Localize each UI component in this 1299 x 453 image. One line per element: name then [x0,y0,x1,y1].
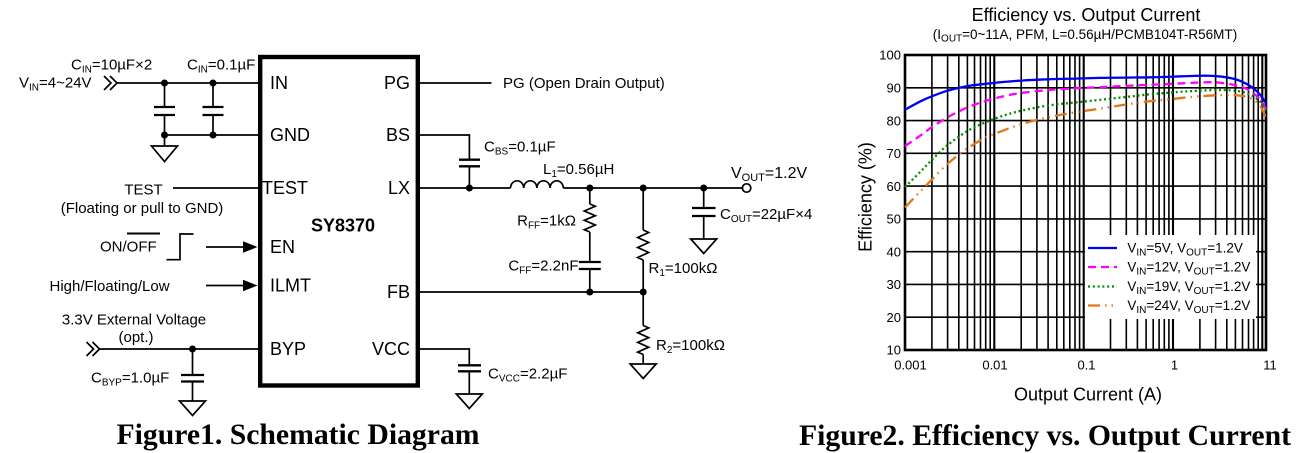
svg-text:VIN=4~24V: VIN=4~24V [19,75,92,94]
wire TEST [173,187,258,189]
wire FB [420,291,643,293]
svg-text:0.1: 0.1 [1077,358,1095,373]
y axis tick labels [879,48,901,358]
svg-text:FB: FB [387,282,410,302]
svg-text:VOUT=1.2V: VOUT=1.2V [731,165,807,184]
svg-text:(Floating or pull to GND): (Floating or pull to GND) [61,200,224,217]
svg-text:Efficiency vs. Output Current: Efficiency vs. Output Current [972,5,1201,25]
svg-text:0.001: 0.001 [894,358,927,373]
junction dots FB rail [586,289,646,296]
svg-text:40: 40 [887,244,901,259]
wire BYP [100,348,259,350]
svg-text:VCC: VCC [372,339,410,359]
resistor R2 [638,292,649,364]
resistor RFF [584,188,595,262]
svg-text:CIN=10µF×2: CIN=10µF×2 [71,57,152,76]
step waveform symbol [167,234,194,260]
legend sample line VIN=12V [1088,266,1117,268]
capacitor CFF [579,262,601,292]
svg-text:High/Floating/Low: High/Floating/Low [50,278,170,295]
svg-text:90: 90 [887,81,901,96]
junction dot BYP [189,346,196,353]
svg-text:CIN=0.1µF: CIN=0.1µF [187,57,255,76]
svg-text:60: 60 [887,179,901,194]
ground COUT [691,239,717,254]
EN arrowhead [243,241,258,253]
junction dots LX rail [466,185,707,192]
wire VCC [420,349,469,365]
svg-text:ON/OFF: ON/OFF [100,239,157,256]
capacitor CBYP [181,349,204,401]
capacitor CIN1 [154,83,175,135]
curve VIN=24V [905,95,1266,207]
svg-text:SY8370: SY8370 [311,216,375,236]
capacitor CIN2 [203,83,224,135]
resistor R1 [638,188,649,292]
svg-text:LX: LX [388,178,410,198]
svg-text:L1=0.56µH: L1=0.56µH [543,161,614,180]
svg-text:70: 70 [887,146,901,161]
svg-text:CBYP=1.0µF: CBYP=1.0µF [91,370,169,389]
svg-text:20: 20 [887,310,901,325]
svg-text:100: 100 [879,48,901,63]
svg-text:EN: EN [270,237,295,257]
svg-text:30: 30 [887,277,901,292]
svg-text:TEST: TEST [124,182,162,199]
junction dots input [161,80,217,139]
svg-text:50: 50 [887,212,901,227]
svg-text:Efficiency (%): Efficiency (%) [856,142,876,252]
svg-text:Output Current (A): Output Current (A) [1014,385,1162,405]
legend sample line VIN=24V [1088,304,1117,306]
svg-text:CVCC=2.2µF: CVCC=2.2µF [488,366,567,385]
legend sample line VIN=19V [1088,285,1117,287]
svg-text:R2=100kΩ: R2=100kΩ [656,337,725,356]
svg-text:1: 1 [1171,358,1178,373]
legend box [1085,235,1256,319]
inductor L1 [511,181,564,188]
overline on OFF [127,233,160,235]
curve VIN=19V [905,90,1266,187]
BYP chevron [87,342,100,356]
wire inductor to VOUT [563,187,742,189]
wire VIN to IN pin [117,82,258,84]
x axis tick labels [894,358,1277,373]
input chevron [104,76,117,90]
svg-text:COUT=22µF×4: COUT=22µF×4 [720,206,812,225]
svg-text:BS: BS [386,125,410,145]
svg-text:(IOUT=0~11A, PFM, L=0.56µH/PCM: (IOUT=0~11A, PFM, L=0.56µH/PCMB104T-R56M… [933,27,1237,45]
svg-text:Figure1. Schematic Diagram: Figure1. Schematic Diagram [116,419,479,451]
capacitor CVCC [458,365,481,394]
svg-text:3.3V External Voltage: 3.3V External Voltage [62,312,206,329]
chart x major gridlines [994,55,1262,350]
svg-text:PG: PG [384,73,410,93]
svg-text:BYP: BYP [270,339,306,359]
svg-text:CFF=2.2nF: CFF=2.2nF [508,258,578,277]
curve VIN=5V [905,76,1266,110]
svg-text:GND: GND [270,125,310,145]
wire GND bus [165,134,259,136]
svg-text:IN: IN [270,73,288,93]
svg-text:Figure2. Efficiency vs. Output: Figure2. Efficiency vs. Output Current [799,420,1291,452]
svg-text:CBS=0.1µF: CBS=0.1µF [484,139,556,158]
chart x minor gridlines [932,55,1258,350]
svg-text:RFF=1kΩ: RFF=1kΩ [517,213,576,232]
capacitor CBS [459,160,480,188]
node VOUT terminal [742,184,750,192]
curve VIN=12V [905,82,1266,146]
svg-text:11: 11 [1263,358,1277,373]
ILMT arrowhead [243,280,258,292]
wire LX to inductor [420,187,511,189]
svg-text:(opt.): (opt.) [118,329,153,346]
svg-text:10: 10 [887,343,901,358]
legend sample line VIN=5V [1088,247,1117,249]
svg-text:0.01: 0.01 [982,358,1007,373]
svg-text:PG (Open Drain Output): PG (Open Drain Output) [503,75,665,92]
svg-text:TEST: TEST [262,178,308,198]
svg-text:R1=100kΩ: R1=100kΩ [649,260,718,279]
svg-text:80: 80 [887,113,901,128]
chart frame [905,55,1266,350]
ground R2 [630,364,656,379]
ground VCC [456,394,482,409]
chart y gridlines [905,88,1266,317]
wire PG [420,82,492,84]
svg-text:ILMT: ILMT [270,276,311,296]
ground input [152,135,178,162]
op-amp/IC U1 SY8370 body [260,57,418,386]
ILMT arrow wire [206,285,246,287]
EN arrow wire [206,246,246,248]
ground BYP [180,401,206,416]
capacitor COUT [692,188,716,239]
wire BS [420,135,469,160]
